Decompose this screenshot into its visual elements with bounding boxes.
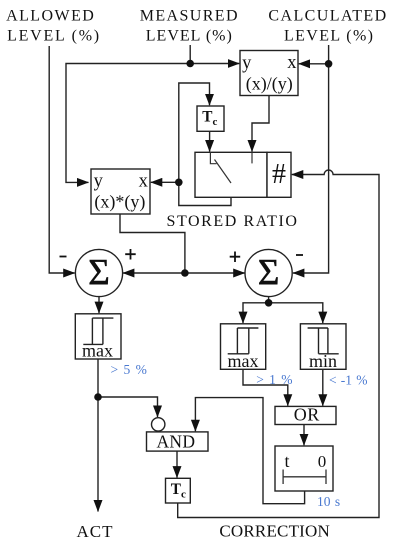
svg-text:OR: OR [294, 404, 320, 424]
svg-text:(x)/(y): (x)/(y) [246, 73, 293, 94]
svg-text:#: # [272, 159, 286, 190]
svg-text:Σ: Σ [258, 253, 280, 294]
svg-text:y: y [94, 172, 104, 192]
svg-text:max: max [228, 351, 259, 371]
svg-text:MEASURED: MEASURED [140, 8, 239, 25]
svg-text:ALLOWED: ALLOWED [6, 8, 95, 25]
svg-text:CALCULATED: CALCULATED [268, 8, 387, 25]
svg-text:< -1 %: < -1 % [329, 372, 367, 387]
svg-text:t: t [284, 451, 289, 471]
svg-text:> 1 %: > 1 % [256, 372, 292, 387]
svg-text:LEVEL (%): LEVEL (%) [146, 28, 233, 45]
svg-text:LEVEL (%): LEVEL (%) [284, 28, 374, 45]
svg-text:Σ: Σ [88, 253, 110, 294]
svg-text:STORED RATIO: STORED RATIO [166, 213, 298, 230]
svg-text:0: 0 [318, 452, 327, 471]
svg-text:x: x [139, 171, 149, 191]
svg-text:y: y [242, 53, 252, 73]
svg-text:10 s: 10 s [317, 494, 340, 509]
svg-text:x: x [287, 53, 297, 73]
svg-text:(x)*(y): (x)*(y) [94, 191, 145, 212]
svg-text:ACT: ACT [77, 522, 114, 541]
svg-text:> 5 %: > 5 % [111, 362, 147, 377]
svg-text:LEVEL (%): LEVEL (%) [7, 28, 101, 45]
svg-text:CORRECTION: CORRECTION [219, 522, 330, 541]
svg-text:AND: AND [156, 432, 195, 452]
svg-text:min: min [309, 351, 337, 371]
svg-text:max: max [82, 341, 113, 361]
